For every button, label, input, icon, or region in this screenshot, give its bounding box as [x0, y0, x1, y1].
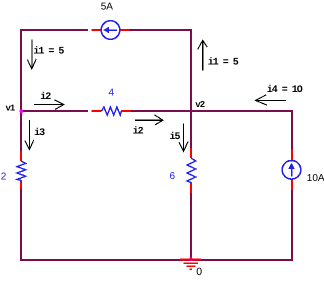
wire right vertical upper [291, 110, 293, 149]
svg-text:i2: i2 [133, 125, 144, 137]
svg-text:5A: 5A [101, 2, 114, 13]
arrow i2 right (below middle wire, right of R4) [135, 115, 163, 125]
wire bottom horizontal [21, 259, 292, 261]
svg-text:i1 = 5: i1 = 5 [33, 46, 64, 58]
svg-text:i4 = 1O: i4 = 1O [267, 84, 303, 96]
svg-text:i5: i5 [170, 131, 181, 143]
arrow i4=10 left [256, 95, 287, 105]
wire left vertical lower [20, 189, 22, 261]
svg-text:4: 4 [109, 88, 115, 99]
node v1 junction dot [20, 109, 24, 113]
wire right vertical lower [291, 190, 293, 261]
current source I1 5A [92, 21, 130, 40]
resistor R2 value 2 vertical left [17, 151, 26, 189]
wire middle horizontal right [131, 110, 191, 112]
svg-text:i1 = 5: i1 = 5 [208, 57, 239, 69]
svg-text:10A: 10A [307, 173, 324, 184]
arrow i5 down [179, 124, 188, 152]
wire top-right horizontal [130, 29, 193, 31]
svg-text:i2: i2 [40, 91, 51, 103]
resistor R4 value 4 horizontal [92, 107, 132, 115]
resistor R6 value 6 vertical middle [187, 148, 196, 193]
ground node junction dot [189, 258, 193, 262]
wire v2 vertical lower [190, 193, 192, 260]
svg-text:6: 6 [170, 171, 176, 182]
wire left vertical upper [20, 29, 22, 151]
arrow i1=5 down (top-left) [27, 39, 36, 69]
arrow i2 right (above middle wire) [34, 100, 64, 110]
svg-text:2: 2 [1, 171, 7, 182]
wire v2 vertical upper [190, 29, 192, 148]
wire middle horizontal left [21, 110, 88, 112]
ground symbol [180, 260, 201, 270]
svg-text:v2: v2 [195, 100, 204, 110]
svg-text:i3: i3 [34, 127, 45, 139]
arrow i1=5 up (top-right) [198, 40, 208, 70]
arrow i3 down [25, 120, 34, 149]
wire right horizontal from v2 [191, 110, 292, 112]
wire top-left horizontal [20, 29, 88, 31]
svg-text:0: 0 [196, 266, 202, 278]
current source I2 10A vertical right [282, 149, 301, 190]
